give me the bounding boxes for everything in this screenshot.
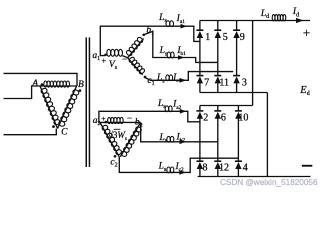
winding wye c1 xyxy=(128,56,146,74)
svg-text:9: 9 xyxy=(240,32,245,43)
winding delta2 top xyxy=(100,117,141,123)
bridge1 negative rail xyxy=(200,92,268,94)
diode 8 xyxy=(196,161,207,176)
label minus terminal xyxy=(302,165,313,167)
svg-text:−: − xyxy=(127,113,132,123)
diode 12 xyxy=(214,161,229,176)
svg-text:8: 8 xyxy=(203,163,208,174)
svg-text:3: 3 xyxy=(242,77,247,88)
svg-text:+: + xyxy=(303,25,310,40)
winding primary B-C xyxy=(58,86,80,129)
wire input phase 1 xyxy=(4,73,78,86)
node A dot xyxy=(41,83,44,86)
diode 4 xyxy=(235,161,248,176)
svg-text:1: 1 xyxy=(205,32,210,43)
svg-text:12: 12 xyxy=(219,163,229,174)
diode 9 xyxy=(233,21,245,76)
label plus terminal xyxy=(303,25,310,40)
dot b1 xyxy=(142,33,145,36)
dot c1 xyxy=(144,76,147,79)
inductor Ls and current Ia2 arrow xyxy=(157,99,186,114)
node B label xyxy=(78,80,84,90)
inductor Ls and current Ib1 arrow xyxy=(159,46,187,60)
wire right vertical to minus xyxy=(266,93,268,177)
svg-text:10: 10 xyxy=(238,112,248,123)
diode 5 xyxy=(214,21,227,76)
dot near C xyxy=(52,125,55,128)
label Id xyxy=(292,7,299,18)
svg-text:C: C xyxy=(61,127,68,137)
node A label xyxy=(31,79,38,89)
svg-text:5: 5 xyxy=(223,32,228,43)
dot a1 xyxy=(104,53,107,56)
wire c2 feed xyxy=(119,157,238,173)
dot b2 side xyxy=(135,130,138,133)
winding wye a1 xyxy=(107,49,123,56)
transformer core xyxy=(86,37,91,167)
wire input phase 3 xyxy=(4,129,57,135)
node b1 label xyxy=(146,26,154,37)
label + Vs - xyxy=(102,54,127,71)
diode 11 xyxy=(214,76,229,93)
diode 1 xyxy=(196,21,210,76)
winding delta2 left xyxy=(100,122,122,156)
label Ed xyxy=(299,85,309,97)
bridge2 positive rail xyxy=(200,105,253,107)
bridge1 positive rail and output wire xyxy=(200,20,310,22)
node c1 label xyxy=(147,76,154,87)
wire c1 feed xyxy=(145,72,233,81)
svg-text:A: A xyxy=(31,79,38,89)
diode 10 xyxy=(235,106,249,162)
wire b1 feed xyxy=(144,31,218,62)
wire a1 feed xyxy=(100,26,200,55)
inductor Ls and current Ia1 arrow xyxy=(158,13,187,29)
node b2 label xyxy=(135,118,143,129)
diode 2 xyxy=(196,106,208,162)
diode 6 xyxy=(214,106,226,162)
inductor Ls and current Ic1 arrow xyxy=(156,73,186,85)
wire wye center xyxy=(122,56,127,58)
svg-text:6: 6 xyxy=(221,112,226,123)
svg-text:11: 11 xyxy=(219,77,229,88)
node a2 label xyxy=(93,116,101,127)
node a1 label xyxy=(92,51,100,62)
winding primary A-B xyxy=(40,81,77,87)
winding wye b1 xyxy=(125,36,143,57)
svg-text:7: 7 xyxy=(204,77,209,88)
wire b2 feed xyxy=(141,122,218,141)
diode 3 xyxy=(233,76,247,93)
svg-text:−: − xyxy=(122,54,127,64)
node C label xyxy=(61,127,68,137)
svg-text:CSDN @weixin_51820056: CSDN @weixin_51820056 xyxy=(220,178,318,187)
node c2 label xyxy=(110,158,117,169)
dot near B xyxy=(79,89,82,92)
label Ld xyxy=(260,9,269,20)
winding primary A-C xyxy=(40,86,61,129)
inductor Ld xyxy=(272,15,286,21)
svg-text:4: 4 xyxy=(243,163,248,174)
wire input phase 2 xyxy=(4,86,41,99)
svg-text:2: 2 xyxy=(203,112,208,123)
dot a2 xyxy=(105,121,108,124)
dot c2 xyxy=(114,155,117,158)
label + delta2 xyxy=(101,114,105,123)
inductor Ls and current Ic2 arrow xyxy=(158,162,186,175)
svg-text:+: + xyxy=(102,57,107,66)
label sqrt3Ws xyxy=(108,129,127,142)
wire bridge link vertical xyxy=(252,21,254,106)
svg-text:B: B xyxy=(78,80,84,90)
label - delta2 xyxy=(127,113,132,123)
output arrow Id xyxy=(296,18,304,23)
wire a2 feed xyxy=(99,111,200,122)
winding delta2 right xyxy=(120,122,142,157)
inductor Ls and current Ib2 arrow xyxy=(158,132,186,144)
watermark xyxy=(220,178,318,187)
bridge2 negative rail and output wire xyxy=(198,176,311,178)
diode 7 xyxy=(196,76,209,93)
